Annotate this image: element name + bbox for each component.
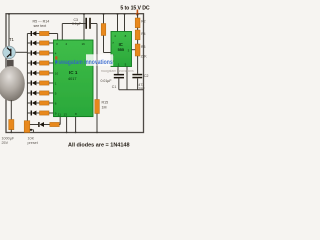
svg-text:5 to 15 V DC: 5 to 15 V DC [120, 5, 149, 11]
svg-text:C2: C2 [144, 74, 149, 78]
junction dots on ground rail [10, 132, 98, 134]
svg-text:555: 555 [118, 48, 124, 52]
svg-text:10: 10 [55, 71, 59, 75]
svg-text:R2: R2 [141, 20, 145, 24]
svg-text:25V: 25V [138, 87, 145, 91]
row 3: diode D3 + resistor R7 to IC1 pin 4 [27, 51, 53, 56]
wire clock net down to R15 [96, 24, 98, 100]
capacitor C2 [132, 74, 142, 76]
capacitor C1 [114, 74, 124, 76]
wire IC2 pin 3 to R3 [132, 49, 136, 51]
wire R1 to IC2 pin 7 [103, 36, 105, 53]
preset P1 10K [24, 121, 30, 133]
wire C2 to ground rail [137, 78, 139, 89]
wire sphere to C4 [10, 100, 12, 121]
row 8: diode D8 + resistor R12 to IC1 pin 6 [27, 101, 53, 106]
wire base T1 to diode bus [15, 51, 27, 53]
capacitor C4 1000uF electrolytic [9, 120, 14, 130]
wire R15 to ground rail [96, 114, 98, 133]
resistor R4 [135, 30, 140, 40]
wire IC1 pin 16 to +V rail [83, 14, 85, 40]
svg-text:All diodes are = 1N4148: All diodes are = 1N4148 [68, 142, 130, 148]
svg-text:C1: C1 [112, 85, 117, 89]
clock line 555 pin3 to 4017 pin14 [62, 23, 85, 25]
resistor R15 [95, 100, 100, 114]
diode bus [26, 34, 28, 125]
junction dots on +V rail [8, 13, 138, 15]
svg-text:R3: R3 [141, 45, 145, 49]
row 10: diode D10 + resistor R14 to IC1 pin 11 [27, 117, 60, 127]
supply arrow [136, 10, 138, 15]
svg-text:R4: R4 [141, 32, 145, 36]
diode-resistor rows R5..R14 / D1..D10 [27, 31, 60, 127]
row 7: diode D7 + resistor R11 to IC1 pin 5 [27, 91, 53, 96]
capacitor C3 [85, 18, 87, 29]
wire IC2 pin 1 to C1 [117, 67, 119, 75]
wire IC1 pin 8 to ground rail [75, 117, 77, 133]
speaker sphere [0, 66, 25, 101]
row 9: diode D9 + resistor R13 to IC1 pin 9 [27, 111, 53, 116]
svg-text:4017: 4017 [68, 77, 76, 81]
svg-text:R15: R15 [102, 100, 109, 104]
ground link wire [119, 89, 144, 91]
svg-text:11: 11 [58, 112, 61, 116]
IC U1 4017 decade counter (IC1) [54, 40, 94, 117]
svg-text:25V: 25V [2, 141, 9, 145]
wire C4 to ground rail [10, 130, 12, 133]
wire R3 to C2 [137, 56, 139, 74]
svg-text:swagatam innovations: swagatam innovations [101, 69, 134, 73]
svg-text:swagatam innovations: swagatam innovations [58, 59, 113, 66]
row 6: diode D6 + resistor R10 to IC1 pin 1 [27, 81, 53, 86]
svg-text:T1: T1 [9, 37, 15, 42]
svg-text:0.1µF: 0.1µF [72, 22, 81, 26]
resistor R1 [103, 14, 105, 24]
svg-text:preset: preset [28, 141, 38, 145]
svg-text:0.01µF: 0.01µF [101, 79, 112, 83]
watermark swagatam innovations [55, 54, 113, 66]
svg-text:22K: 22K [141, 55, 148, 59]
wire IC1 pin 13 to ground rail [66, 117, 68, 133]
row 1: diode D1 + resistor R5 to IC1 pin 3 [27, 31, 57, 40]
wire collector T1 to +V rail [8, 14, 10, 47]
svg-text:1M: 1M [102, 106, 107, 110]
wire IC1 pin 14 to clock line [61, 24, 63, 41]
right column + caps [132, 14, 149, 91]
wire C1 to ground rail [118, 78, 120, 89]
wire +V rail to R2 [137, 14, 139, 18]
wire R2 to R4 [137, 28, 139, 30]
row 4: diode D4 + resistor R8 to IC1 pin 7 [27, 61, 53, 66]
resistor R3 [135, 44, 140, 56]
IC U2 555 timer (IC2) [111, 32, 132, 67]
border frame [6, 14, 144, 133]
svg-text:16: 16 [82, 42, 86, 46]
svg-text:13: 13 [64, 112, 68, 116]
wire IC2 pin 8 to +V rail [124, 14, 126, 32]
wire R4 to R3 [137, 40, 139, 44]
svg-text:see text: see text [34, 24, 47, 28]
speaker neck [7, 60, 14, 67]
row 2: diode D2 + resistor R6 to IC1 pin 2 [27, 41, 53, 46]
wire IC2 pin 4 to +V rail [117, 14, 119, 32]
svg-text:IC 1: IC 1 [69, 70, 78, 75]
transistor T1 [3, 46, 16, 59]
resistor R2 [135, 18, 140, 28]
row 5: diode D5 + resistor R9 to IC1 pin 10 [27, 71, 53, 76]
svg-text:IC: IC [119, 42, 123, 47]
wire IC2 pin 5 to ground rail [126, 67, 128, 90]
